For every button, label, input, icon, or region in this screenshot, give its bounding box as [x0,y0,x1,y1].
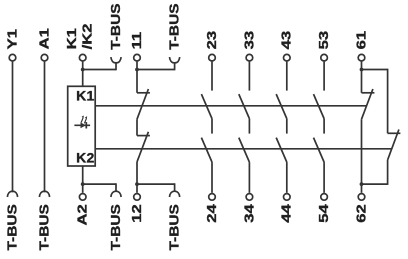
svg-text:61: 61 [354,31,369,50]
svg-text:43: 43 [279,31,294,50]
svg-text:A2: A2 [75,204,90,225]
svg-text:Y1: Y1 [5,29,20,49]
svg-text:62: 62 [354,204,369,223]
svg-text:24: 24 [205,203,220,222]
svg-text:53: 53 [317,31,332,50]
svg-text:T-BUS: T-BUS [5,204,20,250]
svg-text:T-BUS: T-BUS [168,3,183,49]
svg-text:34: 34 [242,203,257,222]
svg-text:T-BUS: T-BUS [109,3,124,49]
svg-text:K2: K2 [76,150,94,166]
svg-text:23: 23 [205,31,220,50]
svg-text:A1: A1 [37,28,52,49]
svg-text:11: 11 [130,32,145,50]
svg-text:33: 33 [242,31,257,50]
svg-text:T-BUS: T-BUS [168,204,183,250]
svg-text:T-BUS: T-BUS [109,204,124,250]
svg-text:T-BUS: T-BUS [37,204,52,250]
svg-text:K1: K1 [65,28,80,49]
svg-text:54: 54 [317,203,332,222]
svg-text:12: 12 [130,204,145,223]
svg-text:K1: K1 [76,88,94,104]
svg-text:44: 44 [279,203,294,222]
svg-text:/K2: /K2 [80,24,95,50]
